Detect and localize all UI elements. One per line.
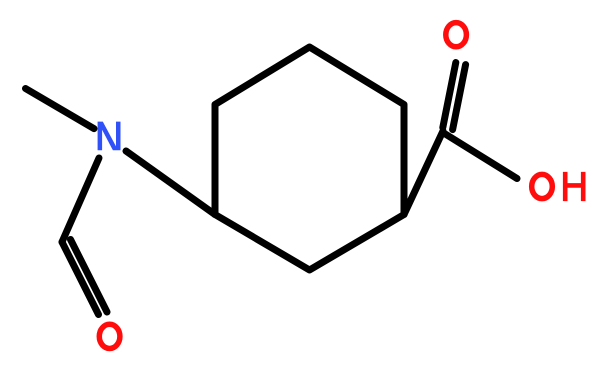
atom O (formyl oxygen, bottom left) [99,324,120,348]
bond N-C4 (N to ring vertex B) [126,151,215,215]
bond C1-COOH (ring to carboxyl carbon) [404,131,443,215]
double bond C3=O formyl carbonyl line 2 [71,240,108,313]
atom N (blue nitrogen) [98,122,121,151]
bond C-OH [445,134,517,179]
ring cyclohexane B-D-E-F-C-G [215,47,404,270]
bond CH3-N (methyl stub) [26,89,95,129]
double bond C3=O formyl carbonyl line 1 [62,242,99,315]
bond N-C (N to formyl carbon C3) [62,158,99,242]
double bond C=O acid carbonyl line 2 [453,65,466,130]
double bond C=O acid carbonyl line 1 [443,63,456,128]
atom O of OH (hydroxyl oxygen) [532,174,553,198]
atom H of OH (hydroxyl hydrogen) [563,172,586,201]
atom O (acid carbonyl oxygen, top right) [446,23,467,47]
